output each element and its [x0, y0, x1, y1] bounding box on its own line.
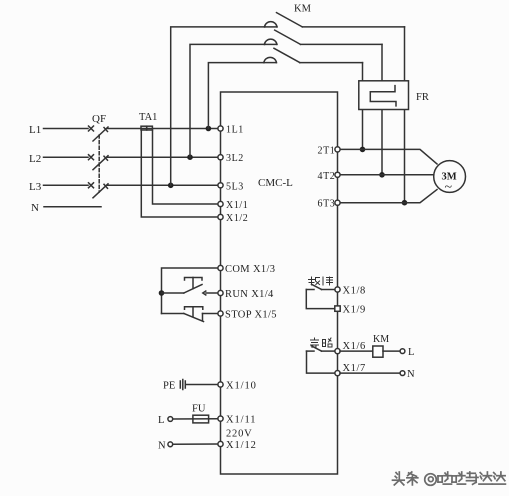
svg-text:TA1: TA1 [139, 112, 157, 123]
breaker QF linkage dashed [98, 135, 100, 192]
wire 6T3 to motor [340, 190, 437, 203]
哒 1 [438, 475, 442, 477]
junction L1 bypass [206, 126, 212, 132]
svg-text:5L3: 5L3 [226, 181, 244, 192]
terminal COM X1/3 [218, 265, 223, 270]
svg-text:3L2: 3L2 [226, 153, 244, 164]
pushbutton STOP (NC) [162, 307, 219, 322]
路 [323, 339, 326, 341]
wire KM pole1 drop to 6T3 [404, 27, 406, 203]
contactor KM pole 1 [265, 13, 405, 27]
wire KM pole3 drop to 2T1 [362, 63, 364, 150]
terminal N (bypass supply) [400, 371, 405, 376]
头 [396, 473, 397, 475]
svg-text:4T2: 4T2 [318, 171, 336, 182]
terminal X1/6 [335, 349, 340, 354]
svg-text:PE: PE [163, 381, 175, 392]
main box CMC-L soft starter U1 [221, 92, 338, 474]
wire N to X1/12 [173, 443, 218, 445]
junction 4T2 bypass [379, 172, 385, 178]
contactor KM pole 3 [264, 48, 363, 62]
bypass contact (pang lu) [307, 346, 336, 373]
wire L1 feed [44, 128, 89, 130]
fault relay contact (gu zhang) [306, 284, 335, 308]
svg-text:FU: FU [192, 404, 206, 415]
thermal relay FR box [359, 81, 409, 110]
breaker QF pole 3 [89, 183, 219, 198]
wire L3 riser to KM pole 1 [171, 27, 265, 185]
svg-text:KM: KM [373, 334, 389, 345]
terminal RUN X1/4 [218, 290, 223, 295]
junction L2 bypass [187, 154, 193, 160]
wire KM pole2 drop to 4T2 [381, 44, 383, 174]
terminal X1/11 [218, 416, 223, 421]
fuse FU [193, 415, 209, 423]
svg-text:X1/9: X1/9 [343, 305, 366, 316]
wire L2 feed [44, 156, 89, 158]
svg-text:220V: 220V [226, 429, 253, 440]
svg-text:X1/2: X1/2 [226, 213, 248, 224]
terminal L (bypass supply) [400, 349, 405, 354]
svg-text:QF: QF [92, 113, 106, 125]
terminal X1/2 [218, 214, 223, 219]
障 [322, 277, 324, 285]
wire X1/7 to N [340, 372, 400, 374]
terminal X1/1 [218, 201, 223, 206]
wire L to X1/11 [173, 418, 218, 420]
breaker QF pole 1 [89, 126, 219, 141]
wire 4T2 to motor [340, 174, 434, 176]
contactor KM pole 2 [264, 30, 382, 44]
svg-text:~: ~ [445, 180, 453, 195]
svg-text:STOP X1/5: STOP X1/5 [225, 310, 277, 321]
svg-text:RUN X1/4: RUN X1/4 [225, 289, 274, 300]
terminal 4T2 [335, 172, 340, 177]
哒 2 [452, 475, 456, 477]
wire TA1 secondary to X1/1 [153, 130, 219, 204]
svg-text:N: N [407, 369, 415, 380]
svg-text:KM: KM [294, 4, 312, 15]
svg-text:L: L [408, 347, 414, 358]
terminal X1/7 [335, 371, 340, 376]
wire KM coil to L [383, 350, 400, 352]
junction 6T3 bypass [402, 200, 408, 206]
svg-text:L3: L3 [29, 181, 42, 193]
svg-text:N: N [31, 202, 39, 214]
ground PE [163, 380, 218, 392]
current transformer TA1 [141, 126, 152, 130]
terminal 6T3 [335, 200, 340, 205]
label pang lu (bypass) hand-drawn glyphs [311, 338, 333, 348]
terminal 5L3 [218, 183, 223, 188]
terminal X1/12 [218, 441, 223, 446]
terminal X1/10 [218, 382, 223, 387]
svg-text:FR: FR [416, 92, 429, 103]
旁 [314, 338, 316, 340]
svg-text:X1/11: X1/11 [226, 415, 256, 426]
wire 2T1 to motor [340, 149, 437, 164]
wire COM loop [162, 268, 219, 314]
terminal X1/9 (square) [335, 306, 340, 311]
wire L3 feed [44, 184, 89, 186]
条 [408, 472, 412, 476]
svg-text:CMC-L: CMC-L [258, 177, 293, 189]
与 [467, 472, 475, 474]
motor 3M [434, 161, 466, 193]
watermark toutiao@dadayudada hand-drawn glyphs [393, 472, 506, 485]
wire TA1 secondary to X1/2 [141, 130, 218, 217]
svg-text:COM X1/3: COM X1/3 [225, 264, 275, 275]
@ [425, 474, 437, 486]
breaker QF pole 2 [89, 155, 219, 170]
svg-text:L1: L1 [29, 124, 41, 136]
svg-text:X1/12: X1/12 [226, 440, 257, 451]
svg-text:L: L [158, 415, 164, 426]
terminal 1L1 [218, 126, 223, 131]
svg-text:X1/8: X1/8 [343, 286, 366, 297]
pushbutton RUN (start, NO) [162, 278, 219, 296]
wire L1 riser to KM pole 3 [208, 63, 264, 129]
junction L3 bypass [168, 183, 174, 189]
terminal 2T1 [335, 147, 340, 152]
svg-text:L2: L2 [29, 153, 41, 165]
terminal 3L2 [218, 155, 223, 160]
svg-text:N: N [158, 440, 166, 451]
wire N [44, 206, 101, 208]
terminal X1/8 [335, 287, 340, 292]
junction RUN [159, 290, 165, 296]
thermal relay FR heater element [370, 86, 396, 106]
svg-text:6T3: 6T3 [318, 199, 336, 210]
svg-text:1L1: 1L1 [226, 125, 244, 136]
svg-text:2T1: 2T1 [318, 145, 336, 156]
terminal STOP X1/5 [218, 311, 223, 316]
故 [311, 277, 313, 285]
wire X1/6 to KM coil [340, 350, 373, 352]
wire L2 riser to KM pole 2 [190, 44, 264, 157]
svg-text:X1/1: X1/1 [226, 200, 248, 211]
达 1 [480, 473, 482, 475]
svg-text:X1/10: X1/10 [226, 381, 257, 392]
contactor coil KM [373, 346, 383, 357]
junction 2T1 bypass [360, 147, 366, 153]
达 2 [494, 473, 496, 475]
label gu zhang (fault) hand-drawn glyphs [309, 277, 333, 285]
